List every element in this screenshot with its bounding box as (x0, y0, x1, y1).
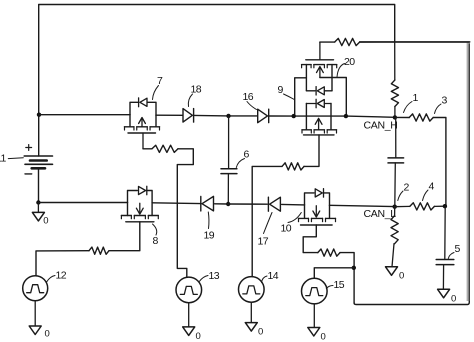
svg-text:13: 13 (209, 270, 220, 282)
wire M8 to diode19 (152, 202, 200, 205)
transistor Q10 body diode (315, 189, 322, 197)
wire resistor to bottom rail (340, 253, 354, 303)
leader label 4 (423, 190, 429, 201)
wire diode19 to C6 node (215, 203, 229, 205)
leader label 8 (153, 224, 157, 235)
leader label 7 (153, 86, 159, 100)
svg-text:1: 1 (413, 92, 419, 104)
transistor Q20 substrate arrow (319, 68, 321, 77)
leader label 9 (284, 94, 295, 100)
node V15 branch junction (352, 266, 356, 270)
leader label 15 (326, 286, 333, 289)
capacitor C5 (436, 259, 454, 261)
node CAN_L junction (393, 205, 397, 209)
wire R2 to ground (392, 244, 394, 267)
transistor Q10 source lead (304, 205, 306, 219)
wire R1 upper lead (394, 42, 396, 80)
transistor Q9 body diode branch (306, 103, 315, 105)
transistor Q9 left vertical (305, 104, 307, 130)
transistor Q10 substrate arrow (315, 206, 317, 216)
leader label 14 (262, 276, 268, 283)
transistor Q9 substrate arrow (318, 120, 320, 130)
diode D18 (183, 109, 192, 123)
leader label 11 (8, 157, 23, 160)
resistor R2 (391, 216, 398, 244)
svg-text:2: 2 (404, 182, 410, 194)
wire Q20 drain to left rail (295, 78, 307, 116)
wire C5 upper lead (444, 206, 446, 259)
transistor Q10 drain lead (329, 205, 331, 218)
wire C6 node to diode17 (228, 203, 267, 205)
wire V15 to ground (313, 304, 315, 328)
wire bottom rail (354, 44, 469, 305)
wire top-right branch (320, 41, 335, 43)
battery B11 minus sign (25, 173, 32, 175)
transistor Q8 drain lead (151, 203, 153, 216)
svg-text:14: 14 (268, 270, 279, 282)
wire V14 to ground (250, 302, 252, 322)
transistor Q9 right vertical (330, 104, 332, 130)
svg-text:0: 0 (451, 294, 456, 305)
svg-text:15: 15 (334, 279, 345, 291)
wire Q10 gate lead (303, 225, 318, 253)
wire V12 to ground (34, 301, 36, 326)
transistor Q8 body-diode loop (128, 191, 153, 203)
wire R1 lower lead (394, 107, 396, 118)
ground G13 (183, 327, 195, 336)
pulse source V14 (239, 277, 265, 303)
wire resistor to right rail (360, 41, 470, 43)
svg-text:3: 3 (442, 95, 448, 107)
pulse source V15 (302, 278, 328, 304)
wire resistor to V12 (36, 251, 89, 276)
wire C6 lower lead (227, 174, 229, 204)
resistor R20 top (335, 38, 360, 45)
wire M9 left node to right node (294, 115, 346, 117)
leader label 16 (247, 102, 257, 110)
resistor R1 (391, 80, 398, 107)
leader label 20 (337, 64, 345, 78)
svg-text:7: 7 (157, 75, 163, 87)
transistor Q20 body diode (317, 87, 324, 95)
transistor Q8 source lead (127, 203, 129, 216)
ground G5 (438, 289, 450, 298)
wire lower rail left (38, 202, 127, 204)
wire V13 to ground (188, 303, 190, 327)
wire branch to V15 (314, 268, 354, 278)
svg-text:19: 19 (204, 230, 215, 242)
wire diode16 to M9 node (270, 115, 294, 117)
ground G14 (245, 323, 257, 332)
transistor Q8 body diode (139, 186, 146, 194)
svg-text:20: 20 (344, 56, 355, 68)
capacitor C-split (388, 157, 404, 159)
svg-text:0: 0 (43, 215, 48, 226)
wire M10 to CAN_L (330, 205, 395, 206)
transistor Q10 channel and gate (299, 217, 309, 219)
ground G11 (32, 212, 44, 221)
resistor Q8 gate (89, 247, 109, 254)
wire Q9 gate lead (304, 135, 319, 167)
resistor R3 (409, 114, 433, 121)
diode D17 (270, 197, 281, 211)
leader label 5 (448, 253, 454, 259)
node CAN_H junction (393, 115, 397, 119)
svg-text:CAN_L: CAN_L (364, 208, 397, 220)
wire split cap upper lead (395, 117, 397, 157)
node M9 right junction (344, 114, 348, 118)
svg-text:0: 0 (196, 331, 201, 342)
diode D16 (258, 109, 268, 123)
leader label 6 (236, 159, 244, 168)
wire top supply rail (39, 5, 395, 157)
ground G12 (29, 326, 41, 335)
leader label 10 (288, 213, 301, 223)
transistor Q8 channel and gate (121, 215, 131, 217)
resistor Q10 gate (318, 249, 340, 256)
svg-text:CAN_H: CAN_H (364, 120, 398, 132)
pulse source V13 (176, 277, 202, 303)
diode D19 (202, 196, 214, 211)
transistor Q7 channel and gate (125, 126, 134, 128)
wire Q8 gate lead (109, 222, 140, 251)
node C6 bottom junction (226, 202, 230, 206)
resistor Q9 gate (282, 163, 304, 170)
battery B11 plus sign (26, 147, 32, 149)
wire right rail (467, 43, 470, 302)
pulse source V12 (23, 276, 48, 301)
transistor Q9 channel and gate (302, 129, 311, 131)
wire upper rail left (node to M7) (39, 114, 130, 116)
svg-text:5: 5 (455, 243, 461, 255)
ground G15 (308, 328, 320, 337)
svg-text:0: 0 (258, 327, 263, 338)
leader label 1 (404, 102, 413, 113)
node lower-left junction (36, 200, 40, 204)
wire C6 upper lead (228, 116, 230, 169)
leader label 17 (264, 213, 273, 234)
transistor Q7 substrate arrow (141, 119, 143, 127)
svg-text:16: 16 (243, 91, 254, 103)
wire Q20 source to right rail (320, 78, 346, 117)
node M9 left junction (292, 114, 296, 118)
node capacitor C6 top (226, 114, 230, 118)
wire Q7 gate lead (142, 133, 144, 149)
leader label 3 (435, 104, 442, 114)
node R4 right junction (443, 204, 447, 208)
svg-text:8: 8 (153, 235, 159, 247)
leader label 2 (398, 191, 403, 201)
resistor Q7 gate (152, 145, 178, 152)
node battery positive junction (37, 113, 41, 117)
leader label 13 (199, 276, 208, 282)
leader label 12 (47, 276, 55, 282)
wire Q20 gate from top branch (319, 42, 321, 60)
transistor Q20 body diode branch (306, 90, 315, 92)
wire gate to resistor (143, 148, 152, 150)
svg-text:9: 9 (278, 84, 284, 96)
transistor Q20 left vertical (305, 65, 307, 91)
svg-text:0: 0 (45, 329, 50, 340)
wire junction to ground 11 (37, 203, 39, 213)
capacitor C6 (221, 168, 237, 170)
transistor Q10 body-diode loop (305, 193, 330, 205)
wire diode17 to M10 (282, 203, 305, 206)
transistor Q7 drain lead (155, 115, 157, 127)
leader label 18 (188, 94, 192, 107)
svg-text:10: 10 (281, 223, 292, 235)
svg-text:17: 17 (258, 236, 269, 248)
wire battery negative to lower rail (38, 169, 40, 203)
svg-text:11: 11 (0, 153, 6, 165)
transistor Q8 substrate arrow (139, 203, 141, 212)
leader label 19 (207, 212, 210, 229)
resistor R4 (410, 203, 435, 210)
transistor Q20 right vertical (331, 65, 333, 91)
wire M7 to diode 18 (156, 114, 183, 116)
svg-text:0: 0 (321, 332, 326, 342)
battery B11 plates (24, 155, 52, 157)
svg-text:12: 12 (56, 270, 67, 282)
wire split cap lower lead (394, 163, 397, 207)
ground G-R2 (386, 267, 398, 276)
transistor Q20 channel and gate (302, 64, 311, 66)
svg-text:4: 4 (429, 181, 435, 193)
wire diode18 to cap6 node (194, 114, 228, 117)
transistor Q9 body diode (317, 100, 324, 108)
wire resistor to V14 (252, 166, 282, 276)
wire C5 lower lead (442, 265, 444, 290)
svg-text:0: 0 (399, 271, 404, 282)
wire right node to CAN_H (346, 116, 395, 117)
transistor Q7 source lead (129, 115, 131, 127)
wire cap6 node to diode16 (229, 115, 257, 117)
transistor Q7 body diode (140, 98, 147, 106)
transistor Q7 body-diode loop (130, 102, 156, 115)
wire resistor to corner (177, 149, 193, 277)
